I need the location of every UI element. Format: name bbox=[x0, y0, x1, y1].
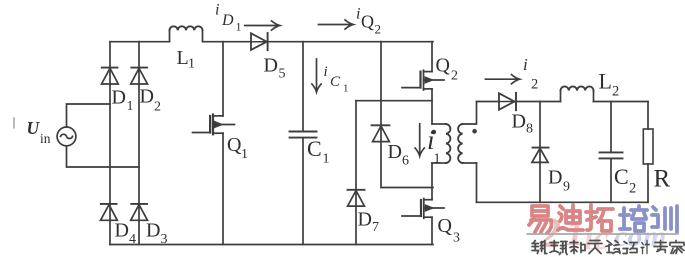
svg-text:i: i bbox=[215, 2, 219, 19]
watermark char di bbox=[558, 205, 583, 230]
ac source Uin bbox=[57, 127, 76, 146]
svg-text:1: 1 bbox=[127, 99, 134, 114]
node dot secondary bbox=[472, 129, 477, 134]
wire top rail left bbox=[110, 41, 170, 43]
wire Uin top lead bbox=[67, 104, 111, 127]
svg-text:1: 1 bbox=[188, 57, 195, 72]
wire bridge right leg bbox=[138, 42, 140, 245]
diode D9 branch bbox=[539, 102, 541, 203]
transistor Q2 bbox=[402, 42, 444, 124]
resistor R bbox=[647, 102, 649, 130]
svg-text:Q: Q bbox=[436, 55, 451, 77]
label Q3 bbox=[438, 215, 461, 246]
watermark char xun bbox=[652, 206, 677, 232]
svg-text:5: 5 bbox=[279, 67, 286, 82]
svg-text:1: 1 bbox=[434, 152, 441, 167]
svg-text:6: 6 bbox=[402, 154, 409, 169]
inductor L1 bbox=[170, 30, 203, 41]
svg-text:2: 2 bbox=[531, 77, 538, 93]
svg-text:C: C bbox=[307, 136, 322, 161]
label D3 bbox=[146, 220, 168, 248]
capacitor C1 bbox=[302, 42, 304, 132]
svg-text:D: D bbox=[140, 86, 154, 108]
watermark slogan text bbox=[532, 241, 547, 254]
label D1 bbox=[112, 87, 134, 115]
label D4 bbox=[115, 220, 137, 248]
wire D8 to L2 bbox=[514, 101, 561, 103]
svg-text:D: D bbox=[115, 220, 129, 242]
stray mark bbox=[13, 118, 15, 128]
label D5 bbox=[264, 55, 286, 82]
label i_D1 bbox=[215, 2, 242, 34]
svg-text:Q: Q bbox=[438, 215, 453, 237]
label C2 bbox=[614, 164, 636, 197]
svg-text:7: 7 bbox=[372, 220, 379, 235]
transformer primary bbox=[432, 123, 446, 125]
diode D8 bbox=[499, 93, 515, 109]
diode D9 bbox=[533, 147, 549, 149]
capacitor C2 bbox=[610, 102, 612, 153]
diode D4 bbox=[101, 203, 117, 205]
label D6 bbox=[388, 141, 410, 169]
svg-text:i: i bbox=[427, 125, 435, 155]
transistor Q1 bbox=[193, 42, 235, 245]
svg-text:Q: Q bbox=[361, 12, 374, 32]
wire bottom rail bbox=[110, 244, 433, 246]
wire through D5 bbox=[251, 41, 266, 43]
svg-text:9: 9 bbox=[563, 180, 570, 195]
svg-text:2: 2 bbox=[612, 84, 619, 100]
svg-text:D: D bbox=[221, 12, 234, 29]
wire bridge left leg bbox=[109, 42, 111, 245]
svg-text:ic: ic bbox=[584, 220, 609, 257]
watermark char yi bbox=[529, 206, 552, 233]
arrow i_Q2 bbox=[319, 24, 351, 26]
transistor Q3 bbox=[402, 199, 444, 245]
diode D6 branch bbox=[381, 42, 433, 188]
svg-text:2: 2 bbox=[629, 181, 636, 197]
label D9 bbox=[548, 167, 570, 195]
diode D3 bbox=[131, 203, 147, 205]
wire Uin bottom lead bbox=[67, 146, 140, 167]
label D2 bbox=[140, 86, 162, 115]
diode D5 bbox=[251, 33, 267, 50]
svg-text:2: 2 bbox=[154, 100, 161, 115]
svg-text:D: D bbox=[146, 220, 160, 242]
arrow i_1 bbox=[419, 124, 421, 153]
arrow i_D1 bbox=[245, 25, 277, 27]
label D8 bbox=[512, 111, 534, 137]
watermark char pei bbox=[620, 206, 647, 231]
wire output return bbox=[477, 201, 649, 203]
wire Q2 source to D7 bbox=[356, 100, 432, 102]
inductor L2 bbox=[561, 91, 594, 102]
svg-text:Q: Q bbox=[227, 134, 242, 156]
wire L2 to R bbox=[594, 101, 649, 103]
svg-text:4: 4 bbox=[129, 232, 136, 247]
transformer secondary bbox=[463, 102, 477, 125]
svg-text:i: i bbox=[324, 64, 328, 80]
diode D6 bbox=[372, 124, 390, 126]
svg-text:C: C bbox=[614, 164, 629, 189]
label i_C1 bbox=[324, 64, 349, 95]
watermark char tuo bbox=[586, 205, 613, 231]
wire output top bbox=[477, 101, 500, 103]
label i_2 bbox=[523, 55, 538, 93]
arrow i_C1 bbox=[316, 59, 318, 89]
svg-text:D: D bbox=[388, 141, 402, 163]
svg-text:D: D bbox=[358, 209, 372, 231]
label Uin bbox=[27, 118, 51, 146]
label L2 bbox=[599, 69, 620, 100]
diode D7 bbox=[348, 189, 365, 191]
svg-text:1: 1 bbox=[343, 83, 349, 95]
diode D2 bbox=[131, 67, 147, 69]
label Q1 bbox=[227, 134, 248, 162]
label L1 bbox=[177, 47, 196, 72]
watermark underline bbox=[527, 233, 678, 235]
svg-text:3: 3 bbox=[453, 231, 460, 246]
svg-text:1: 1 bbox=[323, 152, 330, 167]
diode D7 branch bbox=[355, 101, 357, 245]
svg-text:1: 1 bbox=[236, 20, 242, 34]
svg-text:D: D bbox=[264, 55, 278, 77]
svg-text:in: in bbox=[40, 131, 51, 146]
svg-text:2: 2 bbox=[375, 22, 382, 37]
label Q2 bbox=[436, 55, 459, 84]
node dot primary bbox=[432, 130, 437, 135]
label C1 bbox=[307, 136, 330, 167]
wire through D8 bbox=[499, 101, 514, 103]
svg-text:D: D bbox=[512, 111, 526, 133]
svg-text:D: D bbox=[112, 87, 126, 109]
svg-text:D: D bbox=[548, 167, 562, 189]
label i_Q2 bbox=[356, 6, 381, 37]
wire top rail right bbox=[266, 41, 433, 43]
svg-text:2: 2 bbox=[451, 69, 458, 84]
label D7 bbox=[358, 209, 380, 236]
svg-text:1: 1 bbox=[241, 147, 248, 162]
diode D1 bbox=[102, 67, 118, 69]
svg-text:i: i bbox=[523, 55, 528, 74]
svg-text:L: L bbox=[177, 47, 189, 69]
label i_1 bbox=[427, 125, 441, 167]
arrow i_2 bbox=[485, 78, 517, 80]
svg-text:8: 8 bbox=[526, 122, 533, 137]
svg-text:L: L bbox=[599, 69, 612, 94]
wire top rail mid bbox=[203, 41, 252, 43]
svg-text:3: 3 bbox=[161, 232, 168, 247]
watermark logo bbox=[527, 205, 684, 257]
svg-text:C: C bbox=[330, 74, 341, 90]
svg-text:U: U bbox=[27, 118, 41, 138]
svg-text:R: R bbox=[654, 166, 671, 193]
svg-text:i: i bbox=[356, 6, 360, 23]
